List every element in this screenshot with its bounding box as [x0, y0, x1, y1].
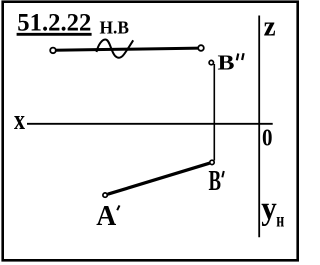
svg-text:B: B: [218, 51, 235, 75]
svg-text:A: A: [96, 201, 117, 232]
svg-text:x: x: [14, 105, 26, 136]
axis x (horizontal): [27, 123, 273, 125]
svg-text:0: 0: [262, 125, 273, 151]
segment A′B′: [108, 163, 210, 194]
svg-text:Н.В: Н.В: [100, 18, 130, 38]
svg-text:н: н: [276, 209, 284, 231]
prime of A′: [117, 205, 119, 210]
segment A″B″ (true length): [54, 48, 200, 50]
title underline: [17, 33, 92, 36]
double prime of B″: [237, 53, 244, 60]
point A′: [103, 193, 107, 197]
svg-text:у: у: [261, 191, 277, 227]
svg-text:z: z: [264, 11, 276, 43]
svg-text:B: B: [209, 166, 222, 197]
true-length squiggle mark: [97, 40, 134, 58]
endpoint circle left of true-length segment: [50, 48, 56, 54]
projection line B″-B′: [213, 64, 215, 161]
point B″: [209, 60, 213, 64]
endpoint circle right of true-length segment: [198, 45, 204, 51]
prime of B′: [222, 171, 224, 177]
svg-text:51.2.22: 51.2.22: [17, 10, 91, 37]
point B′: [210, 160, 214, 164]
axis z (vertical): [258, 16, 260, 238]
